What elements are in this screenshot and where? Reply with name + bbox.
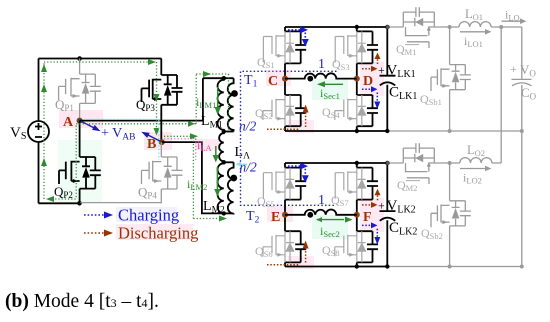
wire green LM1 right <box>228 74 230 131</box>
wire LO2 up to output node <box>500 27 502 163</box>
arrow blue QS1 charge <box>288 29 301 31</box>
current iLM2 arrow <box>216 167 218 190</box>
capacitor VLK2 branch <box>380 163 396 267</box>
transistor QP2 (black, on) <box>59 121 101 204</box>
magenta iLA path <box>164 139 196 160</box>
wire bottom rail black part <box>39 202 80 204</box>
current iSec2 arrow <box>317 219 344 221</box>
wire green right leg <box>156 62 158 134</box>
wire green B row <box>164 135 191 137</box>
transistor QM1 (gray clamp switch) <box>387 7 434 27</box>
svg-text:E: E <box>271 210 280 225</box>
wire node A to transformer <box>80 120 203 122</box>
highlight tint node E <box>267 206 293 222</box>
wire LO1 to output top <box>501 27 522 79</box>
svg-text:Discharging: Discharging <box>118 224 198 243</box>
capacitor VO/CO <box>512 79 532 266</box>
node F <box>354 212 360 218</box>
arrowhead green up corner <box>41 64 47 72</box>
highlight tint QS2 arrow <box>288 120 314 133</box>
polarity dot bridge1 winding <box>307 76 313 82</box>
highlight tint QS6 arrow <box>288 256 314 269</box>
node D <box>354 76 360 82</box>
transistor QP1 (gray, off) <box>59 59 101 120</box>
wire green QP2 leg <box>75 126 77 200</box>
wire bottom rail gray part <box>80 202 162 204</box>
legend discharging arrow <box>84 232 105 234</box>
arrow iLO2 <box>460 168 486 170</box>
node C <box>282 76 288 82</box>
switch QS1 (cap charging) <box>285 27 306 79</box>
highlight tint QP2 area <box>58 140 102 202</box>
highlight tint node C <box>266 70 291 86</box>
switch QS6 (cap discharging) <box>285 215 306 267</box>
arrowhead green bottom rail left <box>46 196 54 202</box>
arrowheads gray <box>485 29 492 35</box>
switch QS3 (cap discharging) <box>357 27 378 79</box>
switch QS5 (cap charging) <box>285 163 306 215</box>
switch QS8 (cap charging) <box>357 215 378 267</box>
transistor QM2 (gray clamp switch) <box>387 143 434 163</box>
arrow VAB from A <box>81 121 96 128</box>
arrow iLO <box>502 20 522 22</box>
polarity dot bridge2 winding <box>307 212 313 218</box>
transistor QSb2 <box>450 163 471 226</box>
wire transformer top tie <box>203 77 234 79</box>
svg-text:n/2: n/2 <box>239 119 257 134</box>
switch QS2 (cap discharging) <box>285 79 306 131</box>
wire node B right then down to transformer bottom <box>162 142 224 213</box>
current iLA arrow <box>215 146 217 156</box>
junction dots bridge2 <box>355 161 359 165</box>
wire bottom rail 2 <box>285 266 387 268</box>
inductor LA <box>219 132 224 163</box>
wire green left rail <box>43 62 45 199</box>
highlight tint node A <box>59 110 103 128</box>
arrow VAB from B <box>147 134 161 141</box>
arrowhead green up left rail 1 <box>41 84 47 92</box>
svg-text:D: D <box>363 74 373 89</box>
arrow blue QS5 charge <box>288 165 301 167</box>
node bottom tie <box>222 211 226 215</box>
arrow brown QS2 discharge <box>267 128 300 130</box>
inductor LO2 <box>450 158 502 163</box>
polarity dot T2 <box>230 175 237 182</box>
wire bottom rail 2 gray part <box>387 266 522 268</box>
switch QS4 (cap charging) <box>357 79 378 131</box>
inductor bridge1 primary winding (1 turn) <box>285 73 357 78</box>
winding T1 secondary n/2 <box>228 78 234 131</box>
switch QS7 (cap discharging) <box>357 163 378 215</box>
inductor bridge2 primary winding (1 turn) <box>285 210 357 215</box>
current iLM1 arrow <box>217 87 219 108</box>
wire top rail <box>39 58 162 60</box>
arrowhead green bottom feed right <box>219 216 227 222</box>
wire green transformer left <box>195 74 197 124</box>
arrow iLO1 <box>460 31 486 33</box>
arrowhead green top right <box>148 59 156 65</box>
svg-text:C: C <box>268 74 278 89</box>
transistor QP4 (gray, off) <box>142 142 183 203</box>
cyan charging hint path A row <box>85 119 159 160</box>
svg-text:+: + <box>378 63 385 77</box>
node mid tie 2 <box>222 160 226 164</box>
node top rail junction <box>77 56 82 61</box>
winding T2 secondary n/2 <box>228 162 234 213</box>
transistor QSb1 <box>450 27 471 90</box>
inductor LM2 winding <box>218 162 224 213</box>
wire green down to LM2 <box>192 138 194 219</box>
highlight tint iLA <box>195 139 219 150</box>
transistor QP3 (black, on) <box>142 59 183 143</box>
wire transformer left vertical up <box>202 78 204 120</box>
arrow brown QS7 discharge <box>362 204 372 206</box>
capacitor VLK1 branch <box>380 27 396 131</box>
arrow blue QS4 charge <box>362 88 372 90</box>
arrow blue QS8 charge <box>362 224 372 226</box>
legend charging arrow <box>84 214 105 216</box>
node A <box>77 118 83 124</box>
wire green top rail <box>44 61 150 63</box>
wire bottom rail 1 <box>285 130 387 132</box>
svg-text:A: A <box>63 115 74 130</box>
diode triangles gray output <box>415 18 423 26</box>
current iSec1 arrow <box>323 83 343 85</box>
svg-text:1: 1 <box>318 57 325 72</box>
highlight tint charging <box>116 207 177 222</box>
arrowhead green down QP3 leg <box>154 94 160 102</box>
arrowhead green right A row <box>188 121 195 127</box>
wire green LM1 top <box>196 73 228 75</box>
cyan arrow near n/2 <box>240 163 247 165</box>
source VS <box>28 121 49 142</box>
node transformer top <box>222 76 226 80</box>
wire green bottom feed <box>193 218 220 220</box>
junction dots gray <box>448 25 452 29</box>
highlight tint iSec2 <box>312 215 348 239</box>
svg-text:+: + <box>510 62 517 76</box>
wire top rail 1 <box>285 26 387 28</box>
node bottom rail junction <box>77 201 82 206</box>
svg-text:F: F <box>363 210 372 225</box>
node mid tie 1 <box>222 129 226 133</box>
wire VS bottom to bottom rail <box>38 142 40 203</box>
node B <box>159 139 165 145</box>
junction dots bridge1 <box>355 25 359 29</box>
arrowhead green up left rail 2 <box>41 158 47 166</box>
wire bottom tie <box>224 212 234 214</box>
arrow brown QS3 discharge <box>362 68 372 70</box>
arrowhead green B row right <box>190 133 198 139</box>
ideal transformer T1 boundary (blue dotted) <box>241 71 337 205</box>
wire green bottom rail <box>52 198 76 200</box>
arrowhead green LM1 top right <box>203 71 211 77</box>
svg-text:+: + <box>378 199 385 213</box>
inductor LO1 <box>449 22 501 27</box>
highlight tint node D <box>360 62 384 96</box>
arrowhead green down above B <box>154 128 160 136</box>
wire mid tie 2 <box>224 161 234 163</box>
highlight tint iSec1 <box>312 79 348 100</box>
inductor LM1 winding <box>218 78 224 131</box>
wire green A row <box>76 123 196 125</box>
highlight tint node F <box>360 198 384 232</box>
svg-text:(b) Mode 4 [t3 – t4].: (b) Mode 4 [t3 – t4]. <box>5 291 159 312</box>
svg-text:n/2: n/2 <box>240 160 258 175</box>
svg-text:1: 1 <box>318 193 325 208</box>
polarity dot T1 <box>231 90 238 97</box>
svg-text:Charging: Charging <box>118 206 179 225</box>
wire bottom rail 1 gray part <box>387 130 522 132</box>
wire VS top to top rail <box>38 59 40 122</box>
wire top rail 2 <box>285 162 387 164</box>
node E <box>282 212 288 218</box>
highlight tint discharging <box>116 224 193 240</box>
highlight tint node B <box>144 132 172 150</box>
wire mid tie 1 <box>224 131 234 133</box>
arrow brown QS6 discharge <box>267 264 300 266</box>
